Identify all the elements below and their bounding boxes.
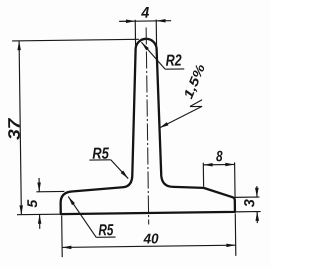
- svg-text:5: 5: [24, 199, 40, 207]
- svg-text:R5: R5: [92, 146, 110, 163]
- svg-text:37: 37: [5, 117, 23, 140]
- svg-text:40: 40: [143, 230, 159, 246]
- svg-text:3: 3: [242, 199, 258, 207]
- svg-text:4: 4: [140, 5, 149, 22]
- svg-text:R5: R5: [98, 222, 114, 239]
- svg-text:8: 8: [216, 148, 223, 165]
- svg-text:R2: R2: [166, 53, 182, 70]
